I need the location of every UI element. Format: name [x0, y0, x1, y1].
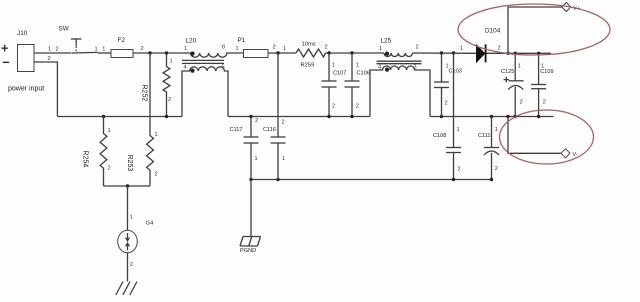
svg-text:SW: SW: [59, 26, 70, 33]
svg-text:G4: G4: [146, 221, 155, 227]
svg-text:C109: C109: [540, 69, 553, 75]
node C108 top: [452, 51, 455, 54]
node R252 bottom: [165, 115, 168, 118]
svg-text:2: 2: [168, 97, 171, 103]
node C109 top: [537, 52, 540, 55]
svg-text:1: 1: [332, 63, 335, 69]
svg-text:1: 1: [495, 127, 498, 133]
svg-text:1: 1: [102, 47, 105, 53]
inductor L25 (common-mode choke): [370, 38, 430, 117]
svg-text:1: 1: [184, 46, 187, 52]
connector J10: [1, 30, 34, 72]
svg-text:R253: R253: [126, 155, 133, 172]
node (P1 / C116 junction): [276, 51, 279, 54]
node C103 top: [440, 51, 443, 54]
wire J10 pin1 to switch: [34, 52, 72, 54]
svg-text:1: 1: [282, 156, 285, 162]
resistor R254: [82, 117, 111, 187]
node G4 tap: [126, 184, 129, 187]
resistor R253: [126, 53, 158, 186]
ground (earth): [116, 282, 137, 296]
svg-text:1: 1: [130, 215, 133, 221]
svg-text:1: 1: [457, 127, 460, 133]
svg-text:C106: C106: [357, 70, 370, 76]
node C125 bottom: [514, 115, 517, 118]
capacitor C107: [322, 53, 347, 117]
highlight ellipse (V+ output): [458, 4, 610, 55]
svg-text:2: 2: [155, 172, 158, 178]
wire R259 to L25: [326, 52, 385, 54]
node C103 bottom: [440, 115, 443, 118]
svg-text:D104: D104: [485, 28, 501, 35]
svg-text:1: 1: [155, 132, 158, 138]
svg-text:C107: C107: [333, 70, 346, 76]
svg-text:10ms: 10ms: [302, 42, 316, 48]
wire diode to output caps: [487, 52, 552, 54]
svg-text:1: 1: [95, 47, 98, 53]
svg-text:−: −: [2, 56, 9, 70]
svg-text:1: 1: [356, 63, 359, 69]
svg-text:2: 2: [332, 104, 335, 110]
svg-text:J10: J10: [17, 30, 28, 37]
inductor L20 (common-mode choke): [182, 38, 228, 117]
svg-text:F2: F2: [118, 37, 126, 44]
node V+ riser: [506, 52, 509, 55]
svg-text:1: 1: [170, 59, 173, 65]
svg-text:2: 2: [325, 44, 328, 50]
wire chassis rail to PGND: [250, 180, 252, 237]
node C111 bottom: [490, 178, 493, 181]
node C107 bottom: [327, 115, 330, 118]
switch SW: [59, 26, 98, 54]
svg-text:2: 2: [130, 262, 133, 268]
svg-text:2: 2: [282, 120, 285, 126]
wire J10 pin2 down to neutral rail: [34, 62, 57, 117]
svg-text:2: 2: [48, 56, 51, 62]
node (R253 tap): [148, 51, 151, 54]
node R254 tap: [102, 115, 105, 118]
node C116 bottom: [276, 178, 279, 181]
node C125 top: [514, 52, 517, 55]
svg-text:8: 8: [222, 45, 225, 51]
node C107 top: [327, 51, 330, 54]
power port V+: [562, 3, 580, 12]
svg-text:2: 2: [56, 47, 59, 53]
capacitor C103: [434, 53, 462, 117]
svg-text:1: 1: [255, 156, 258, 162]
highlight ellipse (V- output): [500, 110, 594, 164]
svg-text:2: 2: [356, 104, 359, 110]
capacitor C116 (Y-cap line to chassis): [263, 53, 286, 180]
chassis rail (bottom): [251, 179, 492, 181]
neutral rail left segment: [57, 116, 182, 118]
svg-text:2: 2: [141, 46, 144, 52]
capacitor C106: [345, 53, 370, 117]
wire divider join: [104, 185, 151, 187]
neutral rail middle segment: [228, 116, 370, 118]
wire to V+ port: [508, 7, 562, 53]
svg-text:1: 1: [518, 64, 521, 70]
svg-text:PGND: PGND: [240, 248, 256, 254]
svg-text:2: 2: [445, 101, 448, 107]
node C106 top: [350, 51, 353, 54]
svg-text:L20: L20: [186, 38, 197, 45]
node PGND corner: [249, 178, 252, 181]
svg-text:P1: P1: [238, 37, 246, 44]
wire F2 to L20: [133, 52, 187, 54]
node (R252 tap): [165, 51, 168, 54]
wire L20 to P1: [227, 52, 244, 54]
svg-text:2: 2: [520, 100, 523, 106]
svg-text:C108: C108: [433, 133, 446, 139]
node C106 bottom: [350, 115, 353, 118]
node V- tap: [506, 115, 509, 118]
svg-text:2: 2: [458, 167, 461, 173]
svg-text:R259: R259: [301, 62, 315, 68]
svg-text:R252: R252: [141, 85, 148, 102]
svg-text:C111: C111: [478, 133, 491, 139]
capacitor C117: [230, 117, 259, 180]
svg-text:1: 1: [108, 128, 111, 134]
svg-text:1: 1: [460, 46, 463, 52]
wire switch to fuse: [98, 52, 112, 54]
node C108 bottom: [452, 178, 455, 181]
ground PGND: [240, 237, 261, 254]
svg-text:1: 1: [379, 46, 382, 52]
wire to V- port: [508, 117, 561, 154]
wire to current source: [127, 186, 129, 231]
svg-text:2: 2: [273, 45, 276, 51]
node C109 bottom: [537, 115, 540, 118]
svg-text:1: 1: [48, 47, 51, 53]
svg-text:1: 1: [283, 46, 286, 52]
svg-text:+: +: [1, 42, 8, 56]
node C111 top: [490, 115, 493, 118]
svg-text:2: 2: [108, 166, 111, 172]
capacitor C108 (Y-cap line to chassis): [433, 53, 461, 180]
svg-text:4: 4: [184, 64, 187, 70]
capacitor C111 (Y-cap neutral to chassis): [478, 117, 499, 180]
svg-text:power input: power input: [8, 86, 44, 93]
power port V-: [561, 149, 578, 158]
wire G4 to earth: [127, 253, 129, 282]
fuse P1: [238, 37, 269, 58]
svg-text:1: 1: [236, 46, 239, 52]
diode D104: [477, 28, 501, 63]
wire P1 to R259: [268, 52, 296, 54]
capacitor C125 (electrolytic): [501, 53, 524, 116]
neutral rail right segment: [430, 116, 554, 118]
current source G4: [118, 221, 154, 253]
svg-text:C103: C103: [449, 69, 462, 75]
svg-text:2: 2: [543, 100, 546, 106]
svg-text:2: 2: [498, 45, 501, 51]
resistor R252: [141, 53, 173, 117]
node C117 tap: [249, 115, 252, 118]
fuse F2: [111, 37, 133, 58]
svg-text:C116: C116: [263, 127, 276, 133]
capacitor C109: [531, 53, 553, 116]
resistor R259 value 10ms: [296, 42, 326, 69]
svg-text:2: 2: [416, 45, 419, 51]
svg-text:L25: L25: [381, 38, 392, 45]
svg-text:C125: C125: [501, 69, 514, 75]
wire L25 to diode: [413, 52, 477, 54]
svg-text:C117: C117: [230, 127, 243, 133]
svg-text:2: 2: [495, 166, 498, 172]
svg-text:R254: R254: [82, 151, 89, 168]
svg-text:2: 2: [255, 118, 258, 124]
